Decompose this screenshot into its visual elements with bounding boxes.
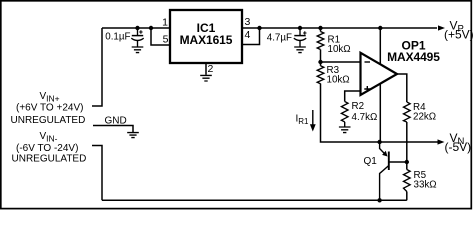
node R1 top (318, 26, 322, 30)
svg-text:33kΩ: 33kΩ (414, 180, 437, 191)
svg-text:10kΩ: 10kΩ (327, 75, 350, 86)
svg-text:4: 4 (245, 29, 251, 41)
svg-text:1: 1 (162, 17, 168, 29)
svg-text:Q1: Q1 (364, 156, 378, 167)
node pin5 branch (149, 26, 153, 30)
resistor R4 (404, 102, 411, 122)
svg-text:5: 5 (163, 34, 169, 46)
svg-text:(-5V): (-5V) (445, 140, 472, 154)
ground under 0.1uF (132, 47, 144, 53)
ground under R2 (339, 127, 351, 133)
wire R1 bottom / R3 top (320, 50, 322, 66)
svg-text:(-6V TO -24V): (-6V TO -24V) (16, 143, 78, 154)
op-amp OP1 (361, 53, 398, 95)
op-amp plus sign (364, 86, 370, 92)
node VN emitter (377, 140, 381, 144)
wire bottom VIN- line (102, 199, 407, 201)
transistor Q1 emitter arrowhead (382, 151, 387, 157)
wire GND lead (93, 126, 133, 133)
wire plus input to R2 (345, 91, 361, 102)
resistor R5 (404, 170, 411, 192)
transistor Q1 (380, 142, 407, 200)
wire R1 top lead (320, 28, 322, 32)
capacitor 0.1uF plus sign (139, 30, 142, 33)
ground GND terminal (127, 133, 139, 138)
arrow VN output (438, 139, 445, 144)
wire R3 bottom to VN rail (321, 84, 438, 143)
svg-text:2: 2 (208, 63, 214, 75)
node pin3/pin4 (257, 26, 261, 30)
wire R4 bottom to base node (406, 122, 408, 162)
svg-text:UNREGULATED: UNREGULATED (12, 154, 87, 165)
wire VIN- lead (92, 146, 102, 201)
svg-text:R2: R2 (352, 101, 365, 112)
wire base node to R5 (406, 162, 408, 170)
svg-text:10kΩ: 10kΩ (328, 44, 351, 55)
svg-text:(+6V TO +24V): (+6V TO +24V) (16, 103, 83, 114)
arrow VP output (438, 25, 445, 30)
wire top VP rail (102, 27, 437, 29)
resistor R2 (341, 102, 348, 122)
svg-text:(+5V): (+5V) (444, 27, 474, 41)
wire pin5 branch (151, 28, 170, 45)
ground under IC pin2 (200, 75, 212, 81)
wire VIN+ lead (92, 28, 102, 106)
wire minus input from R1/R3 node (321, 61, 361, 63)
wire op-amp V- stub (379, 84, 381, 143)
wire op-amp V+ stub (379, 28, 381, 64)
current IR1 arrow (312, 110, 314, 125)
svg-text:GND: GND (105, 116, 127, 127)
node op-amp V+ (378, 26, 382, 30)
op-amp minus sign (365, 61, 371, 63)
capacitor 4.7uF plus sign (303, 31, 306, 34)
svg-text:4.7kΩ: 4.7kΩ (352, 112, 378, 123)
IC IC1 MAX1615 box (170, 10, 242, 63)
resistor R1 (317, 32, 324, 50)
svg-text:3: 3 (245, 16, 251, 28)
wire op-amp output to R4 (397, 74, 407, 102)
node collector on VIN- line (377, 198, 381, 202)
wire R2 bottom lead (344, 122, 346, 127)
svg-text:22kΩ: 22kΩ (413, 112, 436, 123)
resistor R3 (317, 66, 324, 84)
node top cap 0.1uF (135, 26, 139, 30)
svg-text:MAX4495: MAX4495 (387, 50, 440, 64)
node Q1 base / R4 R5 (405, 160, 409, 164)
svg-text:4.7µF: 4.7µF (267, 33, 292, 44)
capacitor C 0.1uF (131, 28, 143, 47)
wire pin4 branch (242, 28, 260, 45)
wire R5 bottom (406, 192, 408, 201)
capacitor C 4.7uF (294, 28, 306, 47)
svg-text:VIN-: VIN- (40, 131, 58, 144)
svg-text:UNREGULATED: UNREGULATED (11, 115, 86, 126)
node cap 4.7uF (298, 26, 302, 30)
ground under 4.7uF (294, 47, 306, 53)
svg-text:MAX1615: MAX1615 (180, 33, 233, 47)
svg-text:0.1µF: 0.1µF (105, 32, 130, 43)
node R1/R3 junction (318, 60, 322, 64)
wire IC pin2 stub (205, 63, 207, 75)
